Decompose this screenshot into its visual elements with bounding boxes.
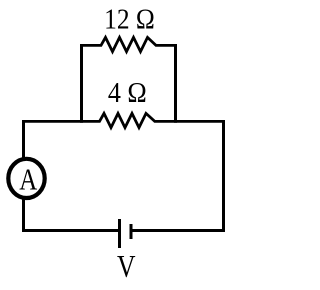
svg-text:4 Ω: 4 Ω — [108, 77, 147, 109]
svg-text:V: V — [117, 249, 136, 284]
svg-text:A: A — [19, 162, 37, 197]
svg-text:12 Ω: 12 Ω — [104, 3, 155, 35]
